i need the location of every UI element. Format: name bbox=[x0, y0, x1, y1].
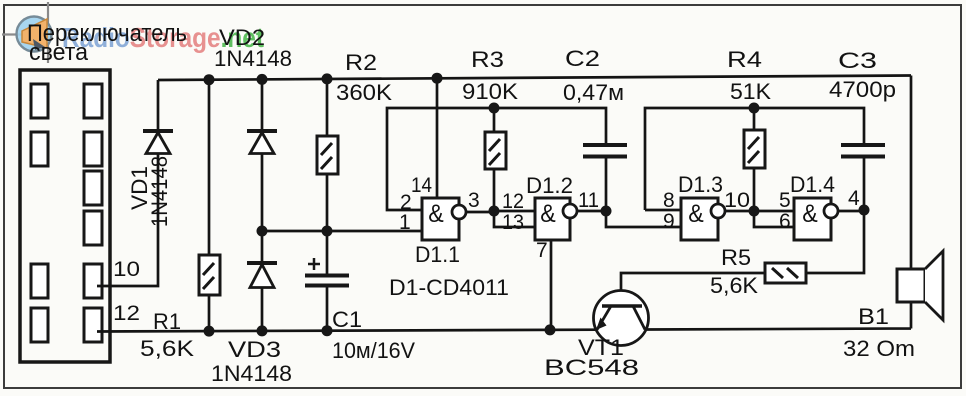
svg-text:&: & bbox=[802, 200, 818, 228]
wire C2 bottom lead bbox=[605, 157, 608, 211]
wire right feedback loop to C3 top bbox=[645, 108, 864, 210]
wire D1.2 pin7 ground bbox=[550, 240, 553, 330]
resistor R1 bbox=[199, 255, 220, 295]
watermark logo bbox=[2, 2, 53, 63]
svg-text:51K: 51K bbox=[730, 79, 771, 104]
wire D1.2 pin12 bbox=[494, 210, 535, 213]
svg-text:R3: R3 bbox=[471, 47, 504, 72]
capacitor C2 bbox=[583, 145, 627, 157]
svg-text:10: 10 bbox=[113, 258, 140, 281]
transistor VT1 bbox=[594, 291, 649, 346]
speaker B1 bbox=[897, 251, 943, 320]
svg-text:3: 3 bbox=[468, 189, 480, 212]
svg-text:D1.4: D1.4 bbox=[790, 172, 835, 197]
wire D1.1 pin14 bbox=[436, 78, 439, 198]
svg-text:1N4148: 1N4148 bbox=[211, 361, 292, 386]
svg-text:11: 11 bbox=[578, 189, 599, 212]
svg-text:360K: 360K bbox=[336, 80, 392, 105]
wire R4 leads bbox=[753, 108, 756, 211]
resistor R4 bbox=[744, 130, 765, 168]
wire node to D1.3 pin9 bbox=[606, 211, 681, 227]
capacitor C1 bbox=[305, 258, 349, 286]
svg-text:VD3: VD3 bbox=[228, 337, 281, 362]
wire R2 leads bbox=[326, 79, 329, 231]
wire R1 leads bbox=[208, 80, 211, 331]
svg-text:5,6K: 5,6K bbox=[710, 273, 758, 298]
svg-text:BC548: BC548 bbox=[544, 355, 639, 380]
svg-text:1N4148: 1N4148 bbox=[214, 46, 292, 71]
wire VD1 anode to pin 10 bbox=[97, 153, 158, 286]
wire C3 bottom lead bbox=[863, 157, 866, 210]
svg-text:D1.3: D1.3 bbox=[678, 172, 723, 197]
svg-text:6: 6 bbox=[779, 210, 791, 233]
wire bottom bus right bbox=[645, 302, 911, 330]
svg-text:D1-CD4011: D1-CD4011 bbox=[389, 275, 509, 300]
gate D1.4 bbox=[794, 198, 838, 240]
svg-text:4700p: 4700p bbox=[829, 77, 896, 102]
svg-text:5: 5 bbox=[779, 189, 791, 212]
wire VD2 anode / node bbox=[261, 153, 264, 264]
resistor R2 bbox=[317, 136, 338, 174]
svg-text:B1: B1 bbox=[858, 304, 889, 329]
wire D1.1 pin2 loop to R3/C2 bbox=[387, 108, 606, 210]
wire VD2 top lead bbox=[261, 79, 264, 131]
svg-text:5,6K: 5,6K bbox=[140, 336, 194, 361]
svg-text:D1.2: D1.2 bbox=[526, 173, 573, 198]
svg-text:1: 1 bbox=[399, 211, 411, 234]
svg-text:32 Om: 32 Om bbox=[843, 336, 915, 361]
diode VD1 bbox=[143, 131, 173, 154]
svg-text:910K: 910K bbox=[462, 79, 518, 104]
wire right drop to speaker bbox=[910, 76, 913, 271]
svg-text:R4: R4 bbox=[727, 47, 762, 72]
resistor R3 bbox=[485, 132, 506, 169]
svg-text:&: & bbox=[428, 200, 444, 228]
wire D1.3 output pin10 bbox=[725, 210, 754, 213]
wire bottom bus left bbox=[97, 330, 597, 332]
gate D1.3 bbox=[681, 198, 725, 240]
svg-text:7: 7 bbox=[536, 239, 548, 262]
svg-text:C3: C3 bbox=[838, 48, 877, 73]
svg-text:C2: C2 bbox=[565, 46, 600, 71]
capacitor C3 bbox=[841, 145, 885, 157]
svg-text:13: 13 bbox=[502, 211, 524, 234]
wire D1.4 output pin4 bbox=[838, 210, 864, 213]
wire D1.2 pin13 bbox=[494, 211, 535, 227]
svg-text:10м/16V: 10м/16V bbox=[332, 338, 415, 363]
svg-text:10: 10 bbox=[724, 189, 750, 212]
svg-text:D1.1: D1.1 bbox=[415, 242, 460, 267]
wire D1.3 pin8 bbox=[645, 209, 681, 212]
svg-text:R5: R5 bbox=[721, 245, 751, 270]
gate D1.2 bbox=[535, 198, 577, 240]
gate D1.1 bbox=[422, 198, 466, 240]
wire R3 leads bbox=[493, 108, 496, 211]
resistor R5 bbox=[765, 263, 806, 283]
wire R5 left to VT1 base bbox=[621, 273, 765, 306]
diode VD2 bbox=[247, 131, 277, 154]
svg-text:14: 14 bbox=[411, 174, 432, 197]
svg-text:9: 9 bbox=[663, 210, 675, 233]
svg-text:0,47м: 0,47м bbox=[563, 80, 624, 105]
svg-text:12: 12 bbox=[502, 190, 524, 213]
svg-text:8: 8 bbox=[663, 189, 675, 212]
wire middle node to D1.1 pin1 bbox=[262, 230, 422, 233]
wire top bus bbox=[158, 76, 911, 81]
svg-text:R1: R1 bbox=[153, 309, 181, 334]
wire C1 leads bbox=[326, 231, 329, 331]
wire D1.2 output pin11 bbox=[577, 210, 606, 213]
svg-text:12: 12 bbox=[113, 302, 140, 325]
svg-text:R2: R2 bbox=[345, 50, 377, 75]
wire D1.4 pin5 bbox=[754, 210, 794, 213]
wire D1.1 output pin3 bbox=[466, 211, 494, 214]
svg-text:&: & bbox=[688, 200, 704, 228]
wire VD3 bottom lead bbox=[261, 288, 264, 331]
switch connector X1 bbox=[20, 70, 110, 362]
wire node4 down to R5 right bbox=[806, 210, 864, 273]
svg-text:&: & bbox=[540, 200, 556, 228]
svg-text:C1: C1 bbox=[332, 307, 362, 332]
svg-text:1N4148: 1N4148 bbox=[147, 156, 172, 227]
wire D1.4 pin6 bbox=[754, 211, 794, 227]
wire VD1 top lead bbox=[157, 80, 160, 131]
svg-text:4: 4 bbox=[848, 187, 860, 210]
svg-text:света: света bbox=[29, 39, 89, 66]
diode VD3 bbox=[247, 263, 277, 288]
